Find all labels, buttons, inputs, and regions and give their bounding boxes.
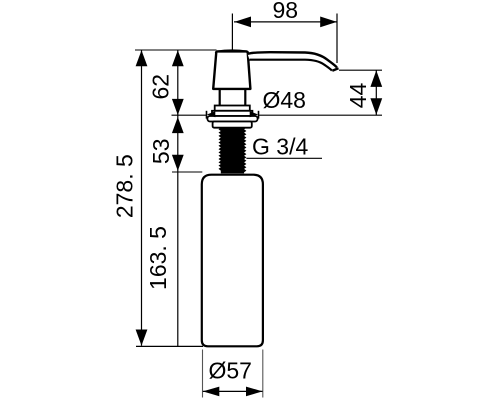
Ø57 extension lines: [203, 350, 263, 398]
dimension line 44: [370, 70, 382, 115]
bottom extension line: [136, 345, 203, 347]
flange extension line with Ø48 arrows: [172, 111, 383, 119]
98 extension line right: [336, 14, 338, 64]
flange plate: [212, 111, 252, 116]
top extension line: [135, 49, 217, 51]
dimension line Ø57: [203, 387, 263, 397]
pump neck: [220, 90, 246, 106]
98 extension line left: [231, 14, 233, 50]
svg-text:278. 5: 278. 5: [111, 154, 137, 218]
svg-text:44: 44: [345, 83, 371, 109]
dimension line 278.5: [136, 50, 148, 346]
svg-text:62: 62: [147, 74, 173, 100]
svg-text:163. 5: 163. 5: [145, 226, 171, 290]
pump head: [213, 50, 250, 88]
nut: [213, 122, 252, 128]
44 top extension line: [339, 69, 382, 71]
svg-text:98: 98: [273, 0, 299, 23]
svg-text:53: 53: [148, 139, 174, 165]
threaded stem G 3/4: [219, 128, 247, 174]
collar: [215, 106, 250, 111]
svg-text:Ø57: Ø57: [208, 358, 251, 384]
bottle top extension line: [172, 171, 202, 173]
G 3/4 leader line: [246, 157, 322, 159]
bottle: [202, 175, 263, 347]
dimension line 62/53/163.5: [172, 50, 184, 346]
dimension 98 line: [234, 17, 337, 28]
flange ring (Ø48): [207, 116, 257, 122]
svg-text:Ø48: Ø48: [262, 87, 305, 113]
spout: [248, 52, 339, 70]
svg-text:G 3/4: G 3/4: [252, 133, 308, 159]
